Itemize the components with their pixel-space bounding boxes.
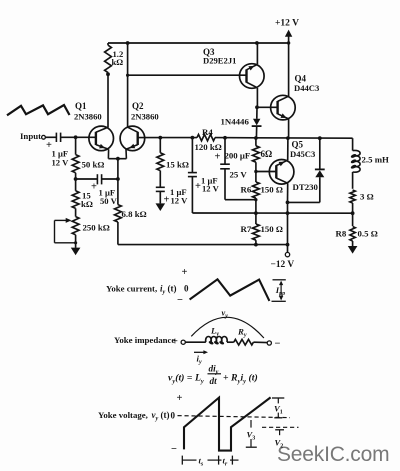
svg-text:2N3860: 2N3860 [131,111,159,121]
svg-text:kΩ: kΩ [81,199,93,209]
svg-text:Yoke voltage,: Yoke voltage, [98,410,148,420]
svg-text:kΩ: kΩ [112,57,124,67]
svg-text:2.5 mH: 2.5 mH [362,155,390,165]
svg-text:250 kΩ: 250 kΩ [83,223,110,233]
svg-text:12 V: 12 V [52,158,70,168]
svg-text:0: 0 [171,410,176,420]
svg-text:3 Ω: 3 Ω [360,192,374,202]
svg-text:+ Ryiy (t): + Ryiy (t) [223,373,258,385]
svg-text:Q5: Q5 [292,140,304,150]
svg-text:Q4: Q4 [295,74,307,84]
svg-text:+: + [215,152,221,163]
svg-text:+: + [182,267,188,278]
svg-text:150 Ω: 150 Ω [261,224,283,234]
svg-text:+: + [177,393,183,404]
svg-text:25 V: 25 V [230,170,248,180]
svg-text:2N3860: 2N3860 [74,111,102,121]
svg-text:200 μF: 200 μF [225,151,251,161]
svg-text:50 kΩ: 50 kΩ [82,160,105,170]
svg-text:+: + [91,182,97,193]
svg-text:0.5 Ω: 0.5 Ω [358,229,378,239]
svg-text:Input: Input [20,131,41,141]
svg-text:D45C3: D45C3 [290,149,315,159]
svg-text:Q2: Q2 [132,101,144,111]
svg-text:−: − [275,339,281,350]
svg-text:12 V: 12 V [171,196,189,206]
svg-text:15 kΩ: 15 kΩ [166,160,189,170]
svg-text:6Ω: 6Ω [261,149,273,159]
svg-text:150 Ω: 150 Ω [261,185,283,195]
svg-text:R8: R8 [336,229,347,239]
svg-text:1N4446: 1N4446 [221,117,250,127]
svg-text:R4: R4 [202,127,213,137]
svg-text:SeekIC.com: SeekIC.com [277,443,389,466]
svg-text:Q1: Q1 [75,101,87,111]
svg-text:−12 V: −12 V [271,260,295,270]
svg-text:120 kΩ: 120 kΩ [195,142,222,152]
svg-text:dt: dt [210,376,218,386]
svg-text:+: + [172,337,178,348]
svg-text:DT230: DT230 [293,182,319,192]
svg-text:+: + [164,195,170,206]
svg-text:R6: R6 [241,185,252,195]
svg-text:R7: R7 [241,224,252,234]
svg-text:50 V: 50 V [100,196,118,206]
svg-text:Yoke current,: Yoke current, [106,283,157,293]
svg-text:+12 V: +12 V [275,19,299,29]
svg-text:0: 0 [184,284,189,294]
svg-text:D29E2J1: D29E2J1 [203,56,236,66]
svg-text:6.8 kΩ: 6.8 kΩ [122,209,147,219]
svg-text:−: − [171,444,177,455]
svg-text:D44C3: D44C3 [294,83,319,93]
svg-text:12 V: 12 V [202,183,220,193]
svg-text:Yoke impedance: Yoke impedance [114,335,175,345]
svg-text:−: − [177,295,183,306]
